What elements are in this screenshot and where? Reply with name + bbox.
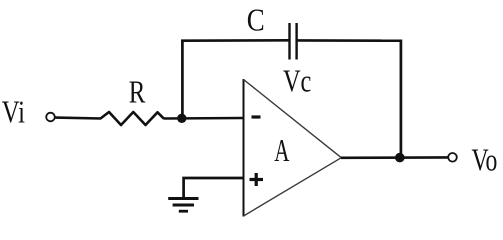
node (output junction): [395, 153, 405, 163]
svg-text:R: R: [129, 75, 146, 111]
wire (feedback, top horizontal to capacitor): [181, 39, 288, 42]
resistor R: [101, 112, 164, 125]
wire (capacitor to right vertical): [298, 39, 403, 42]
wire (resistor to op-amp inverting input): [164, 117, 244, 120]
wire (op-amp output): [341, 156, 448, 159]
svg-text:Vo: Vo: [472, 143, 498, 178]
terminal Vo (output): [448, 153, 457, 162]
wire (feedback, left vertical): [181, 40, 184, 119]
svg-text:Vc: Vc: [283, 64, 311, 99]
svg-text:A: A: [274, 133, 290, 168]
wire (feedback, right vertical down to output): [400, 40, 403, 158]
wire (Vi to resistor): [56, 116, 102, 120]
node (inverting input junction): [177, 114, 186, 123]
pin marker + (non-inverting): [250, 173, 264, 186]
ground: [168, 199, 198, 212]
pin marker - (inverting): [252, 115, 261, 118]
terminal Vi (input): [46, 113, 55, 122]
svg-text:Vi: Vi: [2, 96, 25, 131]
capacitor C: [290, 23, 297, 60]
op-amp A: [244, 79, 342, 217]
svg-text:C: C: [247, 3, 265, 38]
wire (non-inverting input): [184, 178, 243, 198]
